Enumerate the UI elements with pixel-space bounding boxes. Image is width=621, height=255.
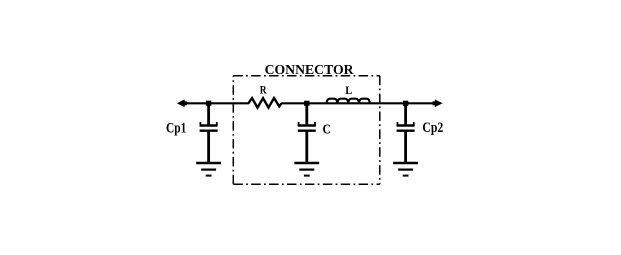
resistor R <box>248 98 281 108</box>
inductor L <box>327 99 370 104</box>
wire main horizontal right segment <box>281 102 439 104</box>
svg-text:Cp2: Cp2 <box>422 120 443 136</box>
capacitor C <box>298 104 316 163</box>
dashed CONNECTOR box <box>233 76 379 185</box>
left arrow terminal <box>177 99 185 107</box>
node junction dot right (Cp2) <box>403 101 408 106</box>
node junction dot left (Cp1) <box>206 101 211 106</box>
svg-text:CONNECTOR: CONNECTOR <box>265 62 354 77</box>
capacitor Cp1 <box>200 104 218 163</box>
right arrow terminal <box>435 99 443 107</box>
capacitor Cp2 <box>397 104 415 163</box>
svg-text:L: L <box>345 83 352 97</box>
ground (Cp1) <box>196 163 221 176</box>
ground (C) <box>294 163 319 176</box>
node junction dot middle (C) <box>304 101 309 106</box>
svg-text:C: C <box>323 122 331 137</box>
svg-text:R: R <box>260 85 267 97</box>
svg-text:Cp1: Cp1 <box>166 121 186 137</box>
ground (Cp2) <box>393 163 418 176</box>
wire main horizontal left segment <box>180 102 249 104</box>
